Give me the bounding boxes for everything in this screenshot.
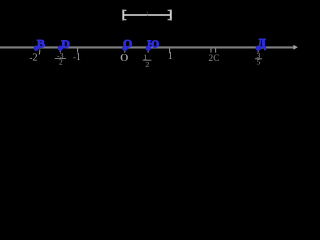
svg-text:-2: -2	[29, 52, 37, 63]
svg-text:1: 1	[146, 10, 149, 17]
svg-text:Ю: Ю	[147, 39, 159, 50]
svg-text:D: D	[61, 37, 70, 51]
svg-text:2: 2	[59, 58, 63, 67]
svg-text:C: C	[213, 53, 219, 63]
svg-text:1: 1	[168, 51, 173, 62]
svg-text:2: 2	[145, 60, 149, 69]
svg-text:5: 5	[257, 57, 261, 66]
svg-text:-1: -1	[73, 52, 81, 63]
svg-text:0: 0	[120, 53, 129, 64]
svg-text:O: O	[123, 36, 132, 50]
svg-text:B: B	[37, 36, 45, 50]
svg-text:Д: Д	[257, 37, 266, 51]
